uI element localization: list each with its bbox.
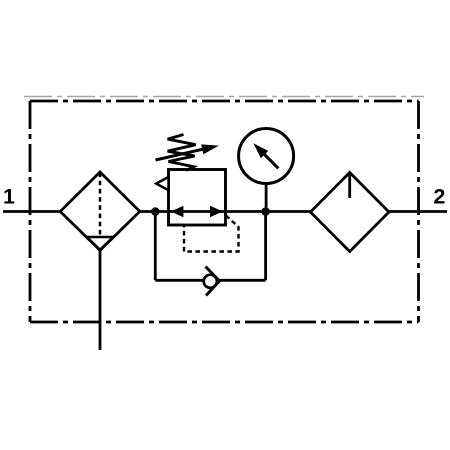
svg-text:1: 1 [3, 185, 15, 209]
svg-text:2: 2 [433, 185, 445, 209]
